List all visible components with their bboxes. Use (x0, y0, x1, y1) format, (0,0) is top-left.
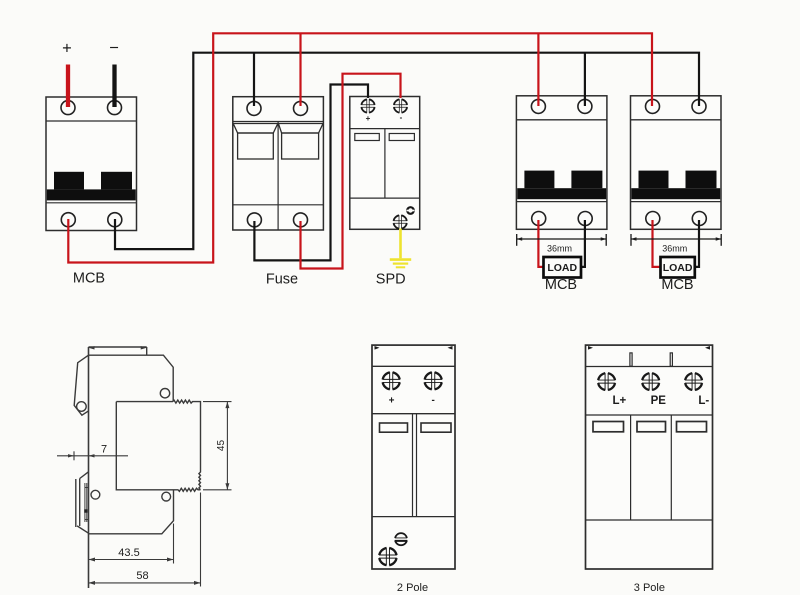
svg-text:-: - (432, 395, 435, 406)
svg-text:MCB: MCB (73, 271, 105, 287)
svg-text:Fuse: Fuse (266, 272, 298, 288)
svg-text:+: + (389, 395, 395, 406)
svg-text:PE: PE (651, 395, 667, 407)
svg-text:3 Pole: 3 Pole (634, 582, 665, 594)
svg-text:LOAD: LOAD (547, 262, 577, 274)
svg-text:SPD: SPD (376, 272, 406, 288)
svg-text:+: + (62, 39, 72, 57)
svg-text:L+: L+ (613, 395, 627, 407)
svg-text:58: 58 (136, 570, 148, 582)
svg-text:36mm: 36mm (662, 243, 687, 253)
svg-text:43.5: 43.5 (118, 547, 139, 559)
svg-text:LOAD: LOAD (663, 262, 693, 274)
svg-text:7: 7 (101, 443, 107, 455)
svg-text:L-: L- (698, 395, 709, 407)
svg-text:MCB: MCB (661, 277, 693, 293)
svg-text:+: + (366, 114, 371, 123)
svg-text:2 Pole: 2 Pole (397, 582, 428, 594)
svg-text:45: 45 (216, 440, 227, 452)
svg-text:36mm: 36mm (547, 243, 572, 253)
svg-text:MCB: MCB (545, 277, 577, 293)
svg-text:−: − (109, 39, 119, 57)
svg-text:-: - (400, 113, 403, 122)
